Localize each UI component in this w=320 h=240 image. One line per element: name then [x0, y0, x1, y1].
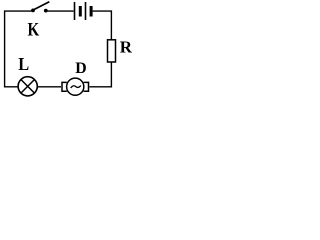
svg-text:D: D [75, 60, 86, 77]
svg-text:K: K [28, 19, 40, 40]
svg-text:R: R [120, 38, 132, 57]
svg-text:L: L [18, 54, 29, 74]
